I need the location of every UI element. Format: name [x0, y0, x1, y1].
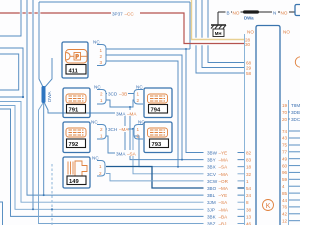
label net 3CW and pin 1 — [204, 178, 238, 184]
svg-text:–CC: –CC — [125, 12, 135, 17]
svg-text:–MA: –MA — [219, 207, 229, 212]
label net 3BZ and pin 46 — [204, 220, 238, 226]
wire top bus line — [39, 1, 190, 3]
ground code box MH — [213, 29, 224, 37]
svg-text:12: 12 — [282, 219, 288, 224]
label 149 — [67, 176, 86, 185]
svg-text:–BA: –BA — [219, 214, 229, 219]
splice DWA body — [42, 86, 46, 103]
svg-text:1: 1 — [100, 48, 103, 53]
svg-text:–YE: –YE — [219, 193, 228, 198]
ECU connector face right — [288, 100, 290, 225]
wire vertical to pin 29 — [202, 0, 244, 68]
connector NC of 792 — [97, 125, 106, 140]
svg-text:8: 8 — [246, 200, 249, 205]
svg-text:NC: NC — [94, 85, 101, 90]
wire DWA out left to bus row 3CW — [39, 103, 245, 224]
svg-text:–SA: –SA — [127, 152, 137, 157]
svg-text:3MA: 3MA — [116, 152, 126, 157]
svg-text:74: 74 — [282, 129, 288, 134]
svg-text:13: 13 — [246, 214, 252, 219]
svg-text:B: B — [227, 11, 230, 16]
wire 411 pin2 down to bus row 3BY — [106, 55, 182, 160]
label net 3P37 — [111, 10, 140, 17]
svg-text:1: 1 — [137, 92, 140, 97]
svg-text:–OR: –OR — [219, 179, 229, 184]
svg-text:24: 24 — [246, 193, 252, 198]
label net 3CH — [107, 126, 128, 132]
svg-text:2: 2 — [100, 54, 103, 59]
svg-text:75: 75 — [282, 143, 288, 148]
svg-text:43: 43 — [282, 136, 288, 141]
label net 3MA lower — [115, 150, 138, 156]
ECU right pin wires — [288, 112, 300, 221]
svg-text:77: 77 — [282, 150, 288, 155]
svg-text:3BL: 3BL — [207, 193, 216, 198]
svg-text:3DC: 3DC — [291, 117, 300, 122]
wire DWA out right to net 3MA — [45, 103, 126, 113]
wire x193 down to bus row 3BW — [186, 49, 244, 153]
svg-text:–MA: –MA — [119, 127, 129, 132]
svg-text:–SA: –SA — [219, 200, 229, 205]
svg-text:NC: NC — [91, 120, 98, 125]
svg-text:3BX: 3BX — [207, 165, 216, 170]
svg-text:791: 791 — [69, 108, 79, 114]
svg-text:K: K — [266, 203, 271, 210]
svg-text:1: 1 — [137, 127, 140, 132]
svg-text:18: 18 — [246, 165, 252, 170]
svg-text:83: 83 — [246, 158, 252, 163]
logo K circle right edge — [295, 57, 305, 67]
label net 3BW and pin 82 — [204, 149, 238, 155]
svg-text:1: 1 — [99, 164, 102, 169]
label 794 — [149, 105, 168, 114]
node junction jog — [129, 106, 131, 108]
wire riser from top line joins 411 wire — [189, 2, 191, 49]
wire net 3CD between 791 and 794 — [106, 93, 134, 95]
svg-text:3CH: 3CH — [108, 127, 117, 132]
wire vertical to pin 68 — [208, 0, 244, 63]
svg-text:70: 70 — [282, 110, 288, 115]
svg-text:3BZ: 3BZ — [207, 222, 216, 226]
label net 3JM and pin 8 — [204, 199, 238, 205]
sensor icon 411 — [66, 50, 88, 64]
connector NC of 149 — [97, 161, 105, 177]
label net 3BO and pin 54 — [204, 185, 238, 191]
connector NC of 794 — [134, 90, 143, 105]
svg-text:54: 54 — [246, 186, 252, 191]
wire vertical x21 to left exit — [0, 0, 21, 36]
svg-text:1: 1 — [100, 134, 103, 139]
label net 3JP and pin 38 — [204, 206, 238, 212]
label wire N — [272, 9, 278, 16]
svg-text:2: 2 — [100, 92, 103, 97]
svg-text:1: 1 — [246, 179, 249, 184]
svg-text:3CV: 3CV — [207, 172, 217, 177]
ECU right pin 20 wire 3DC — [290, 117, 300, 123]
svg-text:49: 49 — [282, 156, 288, 161]
component 793 box — [144, 122, 172, 153]
heater icon 791 — [66, 94, 86, 103]
svg-text:793: 793 — [152, 142, 162, 148]
svg-text:20: 20 — [282, 117, 288, 122]
ground lead — [217, 12, 219, 25]
wire 411 pin1 to top line — [106, 48, 190, 50]
connector NC of 793 — [134, 125, 143, 140]
svg-text:42: 42 — [282, 212, 288, 217]
wire drop x130 to bus row 3BY — [130, 107, 244, 160]
wire from left edge to bus row 3JP — [0, 106, 244, 210]
label wire B — [226, 9, 232, 16]
svg-text:–BJ: –BJ — [219, 222, 227, 226]
wire 149 pin2 to bus row 3CW — [106, 174, 244, 181]
wire 149 pin1 to bus row 3BO — [106, 167, 244, 189]
ECU right pin 70 wire 3DB — [290, 110, 300, 116]
svg-text:3: 3 — [100, 60, 103, 65]
svg-text:2: 2 — [100, 127, 103, 132]
svg-text:2: 2 — [137, 98, 140, 103]
wire jog 791 pin1 to 794 pin2 — [106, 100, 134, 107]
ECU connector face left — [244, 34, 246, 225]
svg-text:30: 30 — [245, 42, 251, 47]
svg-text:–SA: –SA — [219, 165, 229, 170]
label net 3BK and pin 13 — [204, 213, 238, 219]
svg-text:NO: NO — [247, 30, 254, 35]
svg-text:3BY: 3BY — [207, 158, 216, 163]
wire left C-loop inner — [0, 54, 19, 90]
svg-text:T8M: T8M — [291, 103, 300, 108]
svg-text:3P37: 3P37 — [112, 12, 123, 17]
svg-text:MH: MH — [215, 31, 222, 36]
wire vertical x52 down to splice DWA — [45, 58, 52, 87]
svg-text:NC: NC — [92, 156, 99, 161]
svg-text:NC: NC — [136, 85, 143, 90]
wire bottom-left corner to bus row 3BZ — [0, 202, 3, 225]
svg-text:46: 46 — [246, 222, 252, 226]
wire from left edge to bus row 3JM — [0, 102, 244, 203]
svg-text:58: 58 — [246, 71, 252, 76]
svg-text:2: 2 — [99, 171, 102, 176]
component 792 box — [63, 122, 90, 153]
label 791 — [67, 105, 86, 114]
wire drop x133 to bus row 3CV — [133, 129, 244, 174]
label wire NO top2 — [280, 9, 289, 16]
node junction 3CH — [132, 128, 134, 130]
heater icon 793 — [148, 128, 168, 137]
svg-text:–MA: –MA — [127, 112, 137, 117]
label net 3MA upper — [115, 110, 138, 116]
svg-text:3BO: 3BO — [207, 186, 217, 191]
ground symbol — [211, 25, 226, 29]
ECU box 120 — [256, 26, 280, 226]
label net 3CD — [107, 91, 128, 97]
connector box top right — [295, 5, 304, 16]
component 149 box — [63, 157, 90, 188]
label 793 — [150, 139, 169, 148]
wire vertical x27 down to bus row 3BL — [27, 0, 244, 195]
svg-text:N: N — [273, 11, 276, 16]
svg-text:19: 19 — [282, 103, 288, 108]
svg-text:–YE: –YE — [219, 151, 228, 156]
wire vertical x33 down to bus row 3BO — [32, 0, 34, 209]
node junction left loop — [22, 96, 24, 98]
svg-text:NC: NC — [93, 40, 100, 45]
svg-text:3DB: 3DB — [291, 110, 300, 115]
wire left C-loop upper — [0, 48, 23, 97]
svg-text:3BW: 3BW — [207, 151, 218, 156]
label net 3CV and pin 32 — [204, 171, 238, 177]
svg-text:3CD: 3CD — [108, 92, 118, 97]
component 411 box — [62, 42, 88, 78]
svg-text:3JP: 3JP — [207, 207, 215, 212]
heater icon 792 — [66, 128, 86, 137]
svg-text:59: 59 — [282, 177, 288, 182]
svg-text:2: 2 — [137, 134, 140, 139]
label 792 — [67, 139, 86, 148]
wire from left edge to bus row 3BK — [0, 109, 244, 216]
component 791 box — [63, 88, 90, 118]
svg-text:44: 44 — [282, 198, 288, 203]
wire ground link to shielded cable — [218, 11, 246, 13]
svg-text:3MA: 3MA — [116, 112, 126, 117]
node junctions on bus rows — [32, 48, 187, 210]
svg-text:3JM: 3JM — [207, 200, 216, 205]
wire vertical x39 from top line down to splice DWA — [39, 2, 43, 87]
wire net 3P37 red power line — [0, 13, 244, 44]
crossing gaps yellow-red over verticals — [194, 38, 211, 46]
wire 793 pin2 drop to bus row 3BX — [134, 136, 244, 167]
svg-text:149: 149 — [69, 179, 79, 185]
svg-text:32: 32 — [246, 172, 252, 177]
logo K circle — [263, 200, 274, 211]
svg-text:38: 38 — [246, 207, 252, 212]
svg-text:DWA: DWA — [47, 91, 52, 102]
wire dashed shield drain — [51, 164, 53, 225]
svg-text:–MA: –MA — [219, 186, 229, 191]
svg-text:1: 1 — [100, 98, 103, 103]
svg-text:85: 85 — [282, 191, 288, 196]
wire net 3CH between 792 and 793 — [106, 128, 134, 130]
svg-text:NO: NO — [233, 11, 240, 16]
svg-text:–MA: –MA — [219, 158, 229, 163]
label net 3BL and pin 24 — [204, 192, 238, 198]
wire vertical to pin 58 — [196, 0, 244, 73]
svg-text:–3B: –3B — [119, 92, 127, 97]
svg-text:96: 96 — [282, 170, 288, 175]
svg-text:–MA: –MA — [219, 172, 229, 177]
svg-text:60: 60 — [282, 163, 288, 168]
glow plug icon 149 — [68, 161, 87, 176]
label net 3BX and pin 18 — [204, 164, 238, 170]
svg-text:29: 29 — [246, 66, 252, 71]
component 794 box — [144, 88, 172, 118]
heater icon 794 — [148, 94, 168, 103]
wire yellow feed to pin 28 — [192, 0, 245, 40]
shielded cable DWa body — [243, 10, 259, 13]
connector NC of 791 — [97, 90, 106, 105]
label 411 — [66, 65, 86, 75]
label net 3BY and pin 83 — [204, 157, 238, 163]
svg-text:76: 76 — [282, 205, 288, 210]
wire 792 pin1 to net 3MA — [106, 113, 125, 153]
svg-text:NO: NO — [283, 30, 290, 35]
svg-text:3BK: 3BK — [207, 214, 217, 219]
wire DWA out mid to bus row 3CV — [43, 103, 45, 195]
connector NC of 411 — [97, 45, 106, 66]
svg-text:411: 411 — [69, 69, 79, 75]
svg-text:82: 82 — [246, 151, 252, 156]
label wire NO top — [232, 9, 241, 16]
svg-text:NO: NO — [281, 11, 288, 16]
svg-text:3CW: 3CW — [207, 179, 218, 184]
svg-text:NC: NC — [138, 120, 145, 125]
svg-text:794: 794 — [151, 108, 161, 114]
svg-text:792: 792 — [69, 142, 79, 148]
wire 411 pin3 down to bus row 3BX — [106, 61, 178, 167]
svg-text:DWa: DWa — [244, 16, 254, 21]
wire shielded cable right — [259, 11, 295, 13]
svg-text:4: 4 — [282, 184, 285, 189]
